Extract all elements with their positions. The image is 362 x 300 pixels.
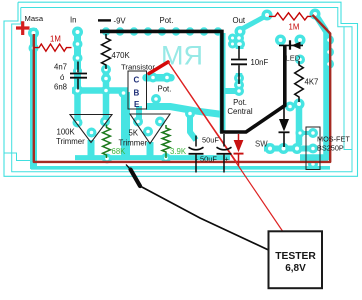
wire trace Out diagonal xyxy=(240,15,267,30)
pads 10nF bottom xyxy=(234,73,244,83)
svg-text:Out: Out xyxy=(233,16,246,25)
wire trace trimmer2 apex down xyxy=(147,142,154,160)
wire dark red loop Masa to bottom to 1M xyxy=(34,15,330,162)
pad In 1 xyxy=(72,27,83,38)
wire red thin to diode xyxy=(168,62,237,162)
svg-text:TESTER: TESTER xyxy=(275,251,316,262)
svg-text:Pot.: Pot. xyxy=(158,84,172,93)
wire trace trimmer1 apex down xyxy=(88,140,95,160)
node Masa plus symbol xyxy=(16,21,30,35)
svg-text:SW: SW xyxy=(255,139,268,148)
pads center row xyxy=(101,86,111,96)
wire trace mid vertical xyxy=(121,92,130,160)
wire trace center row left xyxy=(72,87,128,94)
pads group: via pads with holes xyxy=(28,9,334,170)
svg-text:C: C xyxy=(134,75,140,84)
wire trace In column to trimmer1 xyxy=(74,90,81,122)
wire trace center meander right xyxy=(146,107,223,115)
svg-text:5K: 5K xyxy=(129,128,139,137)
pad holes xyxy=(32,12,331,166)
svg-text:BS250P: BS250P xyxy=(317,143,344,152)
capacitor C3 50uF electrolytic left xyxy=(189,136,204,173)
pad 470K bottom xyxy=(101,74,111,84)
svg-text:MOS-FET: MOS-FET xyxy=(317,134,350,143)
pads trimmer1 xyxy=(73,118,83,128)
wire trace SW row xyxy=(264,146,313,152)
svg-text:Transistor: Transistor xyxy=(121,62,155,71)
pad R2 1M left end xyxy=(262,10,273,21)
wire trace Pot pads band xyxy=(146,74,171,82)
wire black -9V bus with drop and diagonal to LED node xyxy=(100,31,285,132)
capacitor C1 4n7/6n8 xyxy=(70,62,87,90)
pad 68K bottom xyxy=(102,154,112,164)
resistor R3 470K (black) xyxy=(102,34,111,69)
svg-text:Masa: Masa xyxy=(25,14,44,23)
wire trace Pot Central vertical xyxy=(223,33,242,133)
wire trace bottom lower horizontal xyxy=(31,166,330,170)
svg-text:-9V: -9V xyxy=(114,16,127,25)
board outline inner edge xyxy=(4,8,352,172)
wire trace mosfet bottom to edge xyxy=(311,164,315,168)
svg-text:3.9K: 3.9K xyxy=(170,147,187,156)
resistor R6 3.9K (green) xyxy=(162,125,170,158)
svg-text:Pot.: Pot. xyxy=(160,16,174,25)
svg-text:Central: Central xyxy=(227,107,252,116)
wire red thick stub from C xyxy=(149,62,168,74)
svg-text:1M: 1M xyxy=(289,23,300,32)
trimmer P2 5K triangle xyxy=(130,114,170,144)
board outline outer edge xyxy=(4,2,358,176)
wire red thin to tester xyxy=(168,62,284,233)
resistor R1 1M (red, left) xyxy=(34,44,72,51)
pad 4K7 bottom xyxy=(294,99,305,110)
diode D1 black to SW xyxy=(279,107,290,147)
wire trace Out column xyxy=(237,27,244,49)
pad Masa 2 xyxy=(29,43,39,53)
svg-text:ó: ó xyxy=(60,73,65,82)
svg-text:6n8: 6n8 xyxy=(54,83,67,92)
wire trace right of trimmer2 xyxy=(190,112,196,140)
pad 4K7 top xyxy=(295,55,305,65)
pads Pot near transistor xyxy=(148,73,158,83)
tester box xyxy=(269,231,323,288)
capacitor C4 50uF electrolytic right xyxy=(217,134,232,173)
wire trace In column xyxy=(74,28,81,91)
pads 10nF top xyxy=(228,34,237,43)
svg-text:LED: LED xyxy=(286,53,301,62)
trimmer P1 100K triangle xyxy=(70,115,112,143)
wire trace box bottom to trimmer2 xyxy=(136,106,142,120)
pads trimmer2 xyxy=(133,117,143,127)
svg-text:1M: 1M xyxy=(50,35,61,44)
pads SW row xyxy=(265,143,276,154)
svg-text:100K: 100K xyxy=(57,127,76,136)
mosfet U1 outline box xyxy=(306,127,320,170)
svg-text:6,8V: 6,8V xyxy=(285,263,306,274)
probe body xyxy=(131,170,141,187)
pad Masa 1 xyxy=(28,28,39,39)
svg-text:4n7: 4n7 xyxy=(54,63,67,72)
wire trace Masa vertical xyxy=(30,28,37,169)
svg-text:10nF: 10nF xyxy=(251,58,269,67)
resistor R5 68K (green) xyxy=(103,125,111,159)
svg-text:+: + xyxy=(225,154,229,163)
wire trace 10nF upper column xyxy=(236,33,243,49)
pad 470K top xyxy=(101,65,111,75)
-9V legend dash xyxy=(98,19,111,21)
pad In 3 xyxy=(73,53,83,63)
svg-text:68K: 68K xyxy=(112,147,127,156)
wire trace mosfet top pad xyxy=(300,131,313,135)
svg-text:E: E xyxy=(134,100,140,109)
pad 3.9K bottom xyxy=(161,153,171,163)
resistor R2 1M (red, top right) xyxy=(269,13,312,20)
pad In 4 xyxy=(73,67,82,76)
svg-text:Trimmer: Trimmer xyxy=(56,137,85,146)
pads -9V bus row xyxy=(102,27,110,35)
wire trace 4K7 to SW xyxy=(296,104,303,145)
svg-text:B: B xyxy=(134,88,140,97)
pad In 2 xyxy=(73,39,83,49)
pads MOS-FET xyxy=(308,128,318,138)
svg-text:МЯ: МЯ xyxy=(161,41,203,71)
svg-text:Pot.: Pot. xyxy=(233,98,247,107)
pads right edge column xyxy=(324,35,334,45)
wire trace bottom mid horizontal xyxy=(75,155,230,160)
diode LED symbol xyxy=(279,40,303,49)
wire probe cable to tester xyxy=(140,186,269,250)
diode D2 red near SW xyxy=(234,134,244,166)
wire trace 470K column xyxy=(103,66,110,124)
wire trace 10nF lower column xyxy=(236,73,243,92)
svg-text:In: In xyxy=(70,16,77,25)
wire trace right edge column xyxy=(300,14,328,160)
pads LED xyxy=(275,35,286,46)
probe tip xyxy=(126,165,131,170)
svg-text:Trimmer: Trimmer xyxy=(119,138,148,147)
pad R2 1M right end xyxy=(310,9,321,20)
svg-text:470K: 470K xyxy=(112,51,131,60)
svg-text:- 50uF: - 50uF xyxy=(196,154,218,163)
pad Out 2 xyxy=(235,39,245,49)
capacitor C2 10nF xyxy=(231,46,247,84)
transistor Q1 outline box xyxy=(128,71,147,109)
resistor R4 4K7 (black) xyxy=(295,61,304,102)
svg-text:50uF: 50uF xyxy=(202,135,219,144)
svg-text:4K7: 4K7 xyxy=(305,78,319,87)
pad Out 1 xyxy=(235,26,246,37)
